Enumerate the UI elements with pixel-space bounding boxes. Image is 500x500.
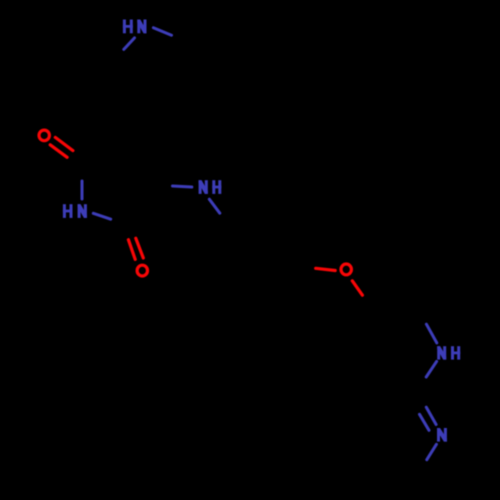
bond N3-C aryl (blue half) xyxy=(209,199,220,213)
bond N1-C5 pyrrole (blue half) xyxy=(124,38,135,50)
double bond C=O2 line 1 xyxy=(128,240,135,260)
atom N3 amine label NH xyxy=(199,180,222,194)
bond C-N imide upper (blue half) xyxy=(81,181,84,199)
atom O1 carbonyl label O xyxy=(39,130,49,141)
bond N5-C pyridine lower (blue half) xyxy=(427,444,437,459)
atom N2 imide label HN xyxy=(63,204,87,218)
bond O3-CH2 (red half) xyxy=(352,281,362,295)
bond N1-C2 pyrrole (blue half) xyxy=(153,28,171,36)
double bond C=O1 line 2 xyxy=(50,145,67,158)
atom O2 carbonyl label O xyxy=(137,265,147,276)
atom N1 pyrrole label HN xyxy=(123,20,147,34)
bond N2-C imide lower (blue half) xyxy=(93,213,110,219)
bond CH2-N4 amine (blue half) xyxy=(426,324,436,343)
double bond C=N5 outer line (blue half) xyxy=(426,407,436,424)
bond C3-N3 amine (blue half) xyxy=(173,186,192,187)
atom O3 ether label O xyxy=(341,264,351,275)
bond C aryl-O3 ether (red half) xyxy=(316,268,336,270)
double bond C=O2 line 2 xyxy=(136,238,144,258)
bond N4-C pyridine (blue half) xyxy=(426,361,436,377)
atom N4 amine label NH xyxy=(437,346,460,359)
atom N5 pyridine label N xyxy=(437,428,447,442)
double bond C=N5 inner line (blue half) xyxy=(420,414,430,430)
double bond C=O1 line 1 xyxy=(55,137,73,150)
